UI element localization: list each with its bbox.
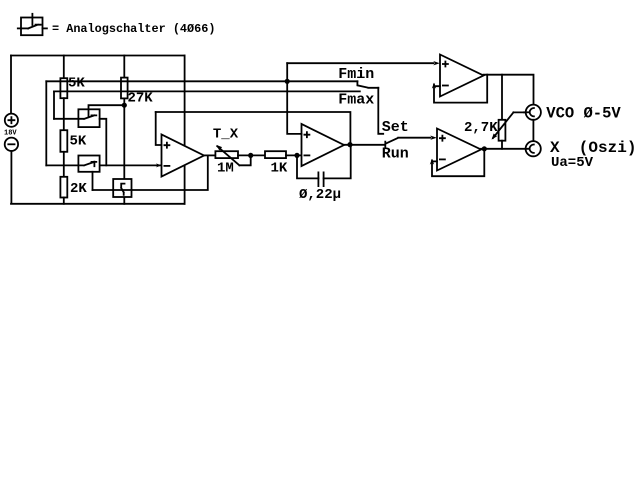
resistor 5K lower xyxy=(60,130,67,152)
analog switch S2 xyxy=(78,156,99,172)
wire between jacks xyxy=(532,120,534,141)
op-amp U1 xyxy=(162,135,205,177)
wire U3 feedback xyxy=(434,75,487,103)
svg-text:T_X: T_X xyxy=(213,127,239,143)
connector jack X xyxy=(526,141,541,156)
wire pot 2.7K riser xyxy=(501,75,503,120)
svg-text:Run: Run xyxy=(382,145,409,162)
wire 27K riser xyxy=(123,56,125,78)
wire top bus xyxy=(11,55,185,57)
arrow U3 plus input xyxy=(433,61,440,65)
wire U4 output xyxy=(481,148,529,150)
node 1M wiper junction xyxy=(248,153,253,158)
switch contact Fmin xyxy=(356,81,358,85)
wire rail A drop xyxy=(45,81,47,165)
battery negative terminal xyxy=(5,138,18,151)
node junction 27K xyxy=(122,103,127,108)
wire 1K to U2 xyxy=(286,154,302,156)
arrow U3 feedback xyxy=(432,83,436,89)
wire rail to U2 output xyxy=(156,112,351,145)
wire inverting input line xyxy=(46,164,161,166)
op-amp U2 xyxy=(302,124,345,166)
svg-text:Ø,22µ: Ø,22µ xyxy=(299,187,341,203)
legend analog switch symbol xyxy=(18,14,47,35)
svg-text:2,7K: 2,7K xyxy=(464,120,498,136)
wire 27K down through switch S3 column xyxy=(123,98,125,203)
wire to U3 plus input xyxy=(287,62,433,64)
capacitor 0.22u branch xyxy=(297,145,351,187)
op-amp U4 xyxy=(437,129,481,171)
wire rail B drop xyxy=(53,91,55,118)
wire between 5K resistors xyxy=(63,98,65,130)
resistor 1K xyxy=(265,151,286,158)
svg-text:VCO Ø-5V: VCO Ø-5V xyxy=(546,105,621,123)
wire 2K to bottom bus xyxy=(63,198,65,204)
svg-text:27K: 27K xyxy=(128,91,154,107)
wire U3 output to VCO xyxy=(484,75,534,105)
svg-text:Fmax: Fmax xyxy=(338,91,374,108)
wire 1M to 1K xyxy=(238,154,265,156)
wire U2 plus input riser xyxy=(287,63,301,134)
arrow U4 feedback xyxy=(430,159,434,165)
wire S1 right lead down xyxy=(100,119,107,166)
battery positive terminal xyxy=(5,114,18,127)
wire U4 feedback xyxy=(432,149,484,176)
wire Run line xyxy=(344,142,385,148)
wire U1 feedback line xyxy=(93,155,208,190)
resistor 27K xyxy=(121,78,128,99)
analog switch S1 xyxy=(78,109,99,127)
connector jack VCO xyxy=(524,105,541,120)
wire U1 plus input riser xyxy=(156,112,162,145)
svg-text:Ua=5V: Ua=5V xyxy=(551,155,594,171)
switch lever Fmin/Fmax xyxy=(358,85,379,87)
wire left edge upper xyxy=(10,56,12,114)
svg-text:Set: Set xyxy=(382,119,409,136)
wire resistor chain top xyxy=(63,56,65,79)
resistor 5K upper xyxy=(60,78,67,98)
node capacitor junction xyxy=(294,153,299,158)
wire U1 output xyxy=(204,154,215,156)
wire S1 left lead xyxy=(54,118,78,120)
wire 5K to 2K xyxy=(63,152,65,177)
arrow U4 plus input xyxy=(430,136,437,140)
analog switch S3 xyxy=(113,179,131,197)
wire S2 bottom drop xyxy=(92,172,94,190)
arrow U1 minus input xyxy=(156,163,162,167)
rail A Fmin xyxy=(46,80,357,82)
svg-text:2K: 2K xyxy=(70,181,87,197)
svg-text:1M: 1M xyxy=(217,160,234,176)
rail B Fmax xyxy=(54,90,360,92)
svg-text:5K: 5K xyxy=(70,133,87,149)
switch lever Set/Run xyxy=(386,138,431,144)
potentiometer 2.7K xyxy=(492,112,530,148)
node U4 output junction xyxy=(482,146,487,151)
op-amp U3 xyxy=(440,55,484,97)
node U2 output junction xyxy=(347,142,352,147)
svg-text:= Analogschalter (4Ø66): = Analogschalter (4Ø66) xyxy=(52,22,215,36)
svg-text:18V: 18V xyxy=(4,130,17,138)
svg-text:5K: 5K xyxy=(68,76,85,92)
wire junction to switch S1 control xyxy=(89,105,125,116)
potentiometer 1M T_X xyxy=(215,145,250,165)
svg-text:Fmin: Fmin xyxy=(338,66,374,83)
wire Set drop xyxy=(378,88,383,134)
wire left edge lower xyxy=(11,151,185,204)
resistor 2K xyxy=(60,177,67,198)
wire right edge of box xyxy=(184,56,186,204)
node rail A junction xyxy=(285,79,290,84)
svg-text:1K: 1K xyxy=(271,160,288,176)
